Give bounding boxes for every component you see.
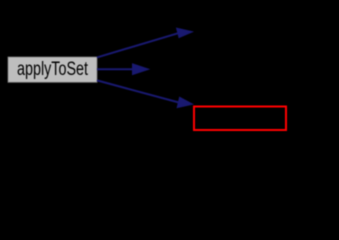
svg-text:applyToSet: applyToSet (17, 59, 89, 80)
